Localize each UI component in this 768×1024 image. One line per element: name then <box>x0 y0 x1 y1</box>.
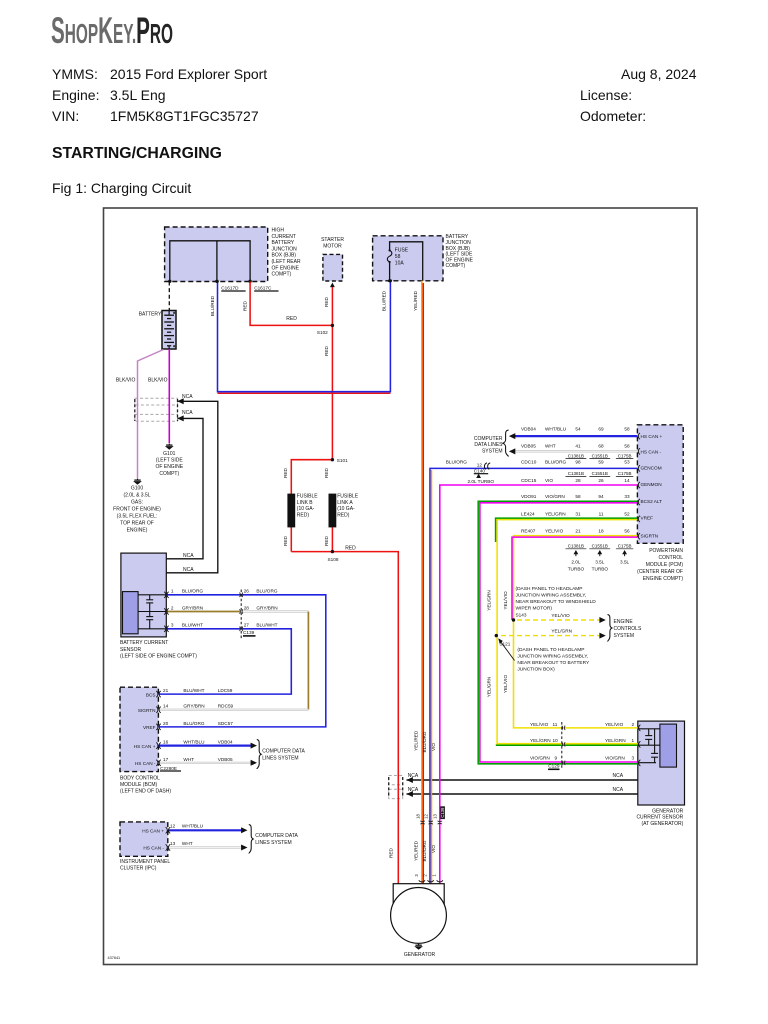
svg-text:BLU/ORG: BLU/ORG <box>183 721 204 726</box>
svg-text:GRY/BRN: GRY/BRN <box>256 605 277 610</box>
svg-text:NCA: NCA <box>183 567 194 573</box>
svg-text:(CENTER REAR OF: (CENTER REAR OF <box>637 569 683 575</box>
svg-text:27: 27 <box>244 623 250 628</box>
svg-text:1: 1 <box>171 589 174 594</box>
svg-text:BLU/WHT: BLU/WHT <box>182 623 203 628</box>
svg-text:1: 1 <box>632 738 635 743</box>
svg-text:2.0L TURBO: 2.0L TURBO <box>468 479 495 484</box>
svg-text:BLU/WHT: BLU/WHT <box>256 623 277 628</box>
svg-text:10A: 10A <box>395 260 405 266</box>
svg-text:(AT GENERATOR): (AT GENERATOR) <box>641 821 683 827</box>
svg-text:JUNCTION WIRING ASSEMBLY,: JUNCTION WIRING ASSEMBLY, <box>517 653 588 659</box>
svg-text:9: 9 <box>555 755 558 760</box>
svg-text:COMPUTER DATA: COMPUTER DATA <box>255 833 298 839</box>
svg-text:16: 16 <box>163 740 169 745</box>
svg-text:2: 2 <box>171 605 174 610</box>
svg-text:OF ENGINE: OF ENGINE <box>156 464 184 470</box>
svg-text:YEL/VIO: YEL/VIO <box>503 675 508 694</box>
svg-text:NCA: NCA <box>182 394 193 400</box>
svg-text:COMPT): COMPT) <box>159 471 179 477</box>
svg-text:BLU/ORG: BLU/ORG <box>422 731 427 752</box>
svg-text:C1381B: C1381B <box>568 544 584 549</box>
svg-text:YEL/RED: YEL/RED <box>414 840 419 861</box>
svg-text:C2280E: C2280E <box>160 766 177 771</box>
svg-text:Fig 1: Charging Circuit: Fig 1: Charging Circuit <box>52 180 191 196</box>
svg-text:LDC59: LDC59 <box>218 688 233 693</box>
svg-text:GENERATOR: GENERATOR <box>404 952 436 958</box>
svg-text:GAS:: GAS: <box>131 500 143 506</box>
svg-text:HS CAN +: HS CAN + <box>134 744 156 749</box>
svg-text:WIPER MOTOR): WIPER MOTOR) <box>516 605 553 611</box>
svg-text:58: 58 <box>624 443 630 448</box>
svg-text:YEL/RED: YEL/RED <box>413 290 418 311</box>
svg-text:TOP REAR OF: TOP REAR OF <box>120 521 154 527</box>
svg-text:C1551B: C1551B <box>592 471 608 476</box>
svg-text:HS CAN +: HS CAN + <box>142 828 164 833</box>
svg-text:BLU/ORG: BLU/ORG <box>422 840 427 861</box>
svg-text:YEL/GRN: YEL/GRN <box>487 590 492 611</box>
svg-text:WHT/BLU: WHT/BLU <box>182 824 204 829</box>
svg-text:HS CAN -: HS CAN - <box>135 761 156 766</box>
svg-text:STARTER: STARTER <box>321 237 344 243</box>
svg-text:C1617D: C1617D <box>221 286 239 291</box>
svg-text:14: 14 <box>163 704 169 709</box>
svg-text:BLU/RED: BLU/RED <box>210 295 215 316</box>
svg-text:License:: License: <box>580 87 632 103</box>
svg-text:CONTROL: CONTROL <box>659 555 684 561</box>
svg-text:CURRENT: CURRENT <box>272 234 296 240</box>
svg-text:C175B: C175B <box>618 544 632 549</box>
svg-text:GENCOM: GENCOM <box>641 465 662 470</box>
svg-text:TURBO: TURBO <box>568 566 585 571</box>
svg-text:C139: C139 <box>243 630 255 635</box>
svg-text:VIO/GRN: VIO/GRN <box>605 755 625 760</box>
svg-text:YEL/GRN: YEL/GRN <box>545 512 566 517</box>
svg-text:YEL/VIO: YEL/VIO <box>503 591 508 610</box>
svg-text:YEL/VIO: YEL/VIO <box>545 529 564 534</box>
svg-text:MOTOR: MOTOR <box>323 244 342 250</box>
svg-text:C175B: C175B <box>618 453 632 458</box>
svg-text:C1551B: C1551B <box>592 453 608 458</box>
svg-text:COMPT): COMPT) <box>272 272 292 278</box>
svg-text:COMPUTER DATA: COMPUTER DATA <box>262 749 305 755</box>
svg-text:(10 GA-: (10 GA- <box>337 506 355 512</box>
svg-text:YMMS:: YMMS: <box>52 66 98 82</box>
svg-text:RED: RED <box>345 546 356 552</box>
svg-text:OF ENGINE: OF ENGINE <box>272 265 300 271</box>
svg-text:41: 41 <box>575 443 581 448</box>
svg-text:(10 GA-: (10 GA- <box>297 506 315 512</box>
svg-text:2: 2 <box>632 722 635 727</box>
svg-text:SIGRTN: SIGRTN <box>641 533 659 538</box>
svg-text:13: 13 <box>433 814 438 819</box>
svg-text:RED): RED) <box>297 512 310 518</box>
svg-text:INSTRUMENT PANEL: INSTRUMENT PANEL <box>120 859 170 865</box>
svg-text:437641: 437641 <box>108 956 121 960</box>
svg-text:SENSOR: SENSOR <box>120 647 142 653</box>
svg-text:33: 33 <box>624 494 630 499</box>
svg-text:BATTERY CURRENT: BATTERY CURRENT <box>120 640 168 646</box>
svg-text:C1381B: C1381B <box>568 453 584 458</box>
svg-text:58: 58 <box>395 254 401 260</box>
svg-text:S108: S108 <box>328 557 339 562</box>
svg-text:LE424: LE424 <box>521 512 535 517</box>
svg-text:YEL/VIO: YEL/VIO <box>530 722 549 727</box>
svg-text:(LEFT END OF DASH): (LEFT END OF DASH) <box>120 789 171 795</box>
svg-text:WHT: WHT <box>545 443 556 448</box>
svg-text:(DASH PANEL TO HEADLAMP: (DASH PANEL TO HEADLAMP <box>517 647 584 653</box>
svg-text:FUSIBLE: FUSIBLE <box>297 494 319 500</box>
svg-text:TURBO: TURBO <box>592 566 609 571</box>
svg-text:ENGINE: ENGINE <box>614 619 634 625</box>
svg-text:C175B: C175B <box>618 471 632 476</box>
svg-text:BATTERY: BATTERY <box>272 240 295 246</box>
svg-text:12: 12 <box>170 824 176 829</box>
svg-text:Odometer:: Odometer: <box>580 108 646 124</box>
svg-text:WHT: WHT <box>183 757 194 762</box>
svg-text:(LEFT SIDE OF ENGINE COMPT): (LEFT SIDE OF ENGINE COMPT) <box>120 654 197 660</box>
svg-text:ENGINE COMPT): ENGINE COMPT) <box>643 576 684 582</box>
svg-text:CURRENT SENSOR: CURRENT SENSOR <box>636 815 683 821</box>
svg-text:CDC15: CDC15 <box>521 478 537 483</box>
svg-text:Aug 8, 2024: Aug 8, 2024 <box>621 66 697 82</box>
svg-text:BATTERY: BATTERY <box>139 312 162 318</box>
svg-text:G100: G100 <box>131 486 143 492</box>
svg-text:YEL/VIO: YEL/VIO <box>605 722 624 727</box>
svg-text:VDB05: VDB05 <box>218 757 233 762</box>
svg-text:WHT/BLU: WHT/BLU <box>183 740 205 745</box>
svg-text:BODY CONTROL: BODY CONTROL <box>120 775 160 781</box>
svg-text:RED: RED <box>324 535 329 546</box>
svg-text:BLU/RED: BLU/RED <box>382 290 387 311</box>
svg-text:3: 3 <box>171 623 174 628</box>
svg-text:RED: RED <box>324 296 329 307</box>
svg-text:NCA: NCA <box>408 787 419 793</box>
svg-text:NEAR BREAKOUT TO WINDSHIELD: NEAR BREAKOUT TO WINDSHIELD <box>516 599 597 605</box>
svg-text:28: 28 <box>244 605 250 610</box>
svg-text:WHT/BLU: WHT/BLU <box>545 427 567 432</box>
svg-text:C1617C: C1617C <box>254 286 272 291</box>
svg-text:GRY/BRN: GRY/BRN <box>183 704 204 709</box>
svg-text:C129: C129 <box>548 764 560 769</box>
svg-text:ENGINE): ENGINE) <box>127 528 148 534</box>
svg-text:NCA: NCA <box>183 553 194 559</box>
svg-text:RED: RED <box>283 467 288 478</box>
svg-text:11: 11 <box>599 512 604 517</box>
svg-text:58: 58 <box>624 427 630 432</box>
svg-text:COMPT): COMPT) <box>446 263 466 269</box>
svg-text:17: 17 <box>163 757 169 762</box>
svg-text:CLUSTER (IPC): CLUSTER (IPC) <box>120 865 157 871</box>
svg-text:RDC59: RDC59 <box>218 704 234 709</box>
svg-text:21: 21 <box>575 529 581 534</box>
svg-text:VIO: VIO <box>431 845 436 853</box>
svg-text:S121: S121 <box>499 642 510 647</box>
svg-text:1FM5K8GT1FGC35727: 1FM5K8GT1FGC35727 <box>110 108 259 124</box>
svg-text:BLU/ORG: BLU/ORG <box>545 459 566 464</box>
svg-text:MODULE (BCM): MODULE (BCM) <box>120 782 158 788</box>
svg-text:94: 94 <box>598 494 604 499</box>
svg-text:VREF: VREF <box>641 516 654 521</box>
svg-text:3.5L: 3.5L <box>595 560 605 565</box>
svg-text:HS CAN -: HS CAN - <box>143 846 164 851</box>
svg-text:SDC57: SDC57 <box>218 721 234 726</box>
svg-text:52: 52 <box>624 512 630 517</box>
svg-text:S143: S143 <box>516 613 527 618</box>
svg-text:DATA LINES: DATA LINES <box>474 442 503 448</box>
svg-text:JUNCTION WIRING ASSEMBLY,: JUNCTION WIRING ASSEMBLY, <box>516 592 587 598</box>
svg-text:GRY/BRN: GRY/BRN <box>182 605 203 610</box>
svg-text:2015 Ford Explorer Sport: 2015 Ford Explorer Sport <box>110 66 267 82</box>
svg-text:MODULE (PCM): MODULE (PCM) <box>646 562 684 568</box>
svg-text:BLU/ORG: BLU/ORG <box>446 460 467 465</box>
svg-text:(DASH PANEL TO HEADLAMP: (DASH PANEL TO HEADLAMP <box>516 586 583 592</box>
svg-text:LINES SYSTEM: LINES SYSTEM <box>255 840 291 846</box>
svg-text:JUNCTION BOX): JUNCTION BOX) <box>517 666 555 672</box>
svg-text:3: 3 <box>414 874 419 877</box>
svg-text:20: 20 <box>163 721 169 726</box>
svg-text:NEAR BREAKOUT TO BATTERY: NEAR BREAKOUT TO BATTERY <box>517 660 590 666</box>
svg-text:VIN:: VIN: <box>52 108 79 124</box>
svg-text:NCA: NCA <box>182 410 193 416</box>
svg-text:3: 3 <box>632 755 635 760</box>
svg-text:CDC10: CDC10 <box>521 459 537 464</box>
svg-text:56: 56 <box>624 529 630 534</box>
svg-text:VREF: VREF <box>143 725 156 730</box>
svg-text:YEL/RED: YEL/RED <box>414 730 419 751</box>
svg-text:59: 59 <box>598 459 604 464</box>
svg-text:RED: RED <box>324 467 329 478</box>
svg-text:SYSTEM: SYSTEM <box>614 633 635 639</box>
svg-text:C139: C139 <box>440 807 445 818</box>
svg-text:10: 10 <box>553 738 559 743</box>
svg-text:VDO91: VDO91 <box>521 494 537 499</box>
svg-text:JUNCTION: JUNCTION <box>272 246 298 252</box>
svg-text:21: 21 <box>163 688 169 693</box>
svg-text:NCA: NCA <box>613 787 624 793</box>
svg-text:CONTROLS: CONTROLS <box>614 626 642 632</box>
svg-text:STARTING/CHARGING: STARTING/CHARGING <box>52 145 222 162</box>
svg-text:69: 69 <box>598 427 604 432</box>
svg-text:NCA: NCA <box>613 773 624 779</box>
svg-text:28: 28 <box>575 478 581 483</box>
svg-text:54: 54 <box>575 427 581 432</box>
svg-text:YEL/GRN: YEL/GRN <box>530 738 551 743</box>
svg-text:HS CAN -: HS CAN - <box>641 450 662 455</box>
svg-text:HIGH: HIGH <box>272 228 285 234</box>
svg-text:RED: RED <box>283 535 288 546</box>
svg-text:LINK B: LINK B <box>297 500 314 506</box>
svg-text:53: 53 <box>624 459 630 464</box>
svg-text:VDB04: VDB04 <box>521 427 536 432</box>
svg-text:RED: RED <box>286 316 297 322</box>
svg-text:VIO: VIO <box>431 743 436 751</box>
svg-text:BLK/VIO: BLK/VIO <box>116 378 136 384</box>
svg-text:SHOPKEY.PRO: SHOPKEY.PRO <box>51 11 173 52</box>
svg-text:12: 12 <box>424 814 429 819</box>
svg-text:G101: G101 <box>163 451 175 457</box>
svg-text:31: 31 <box>575 512 581 517</box>
svg-text:Engine:: Engine: <box>52 87 99 103</box>
svg-text:SIGRTN: SIGRTN <box>138 708 156 713</box>
svg-text:YEL/VIO: YEL/VIO <box>551 613 570 618</box>
svg-text:BLU/WHT: BLU/WHT <box>183 688 204 693</box>
svg-text:VIO/GRN: VIO/GRN <box>530 755 550 760</box>
svg-text:C1381B: C1381B <box>568 471 584 476</box>
svg-text:18: 18 <box>415 814 420 819</box>
svg-text:VDB04: VDB04 <box>218 740 233 745</box>
svg-text:11: 11 <box>553 722 558 727</box>
svg-text:BOX (BJB): BOX (BJB) <box>272 253 297 259</box>
svg-text:WHT: WHT <box>182 841 193 846</box>
svg-text:FRONT OF ENGINE): FRONT OF ENGINE) <box>113 507 161 513</box>
svg-text:98: 98 <box>575 459 581 464</box>
svg-text:RE407: RE407 <box>521 529 536 534</box>
svg-text:YEL/GRN: YEL/GRN <box>487 677 492 698</box>
svg-text:RED: RED <box>242 300 247 311</box>
svg-text:(2.0L & 3.5L: (2.0L & 3.5L <box>123 493 150 499</box>
svg-text:VIO/GRN: VIO/GRN <box>545 494 565 499</box>
svg-text:S102: S102 <box>317 330 328 335</box>
svg-text:SYSTEM: SYSTEM <box>482 448 503 454</box>
svg-text:26: 26 <box>244 589 250 594</box>
svg-text:3.5L: 3.5L <box>620 560 630 565</box>
svg-text:13: 13 <box>170 841 176 846</box>
svg-text:58: 58 <box>575 494 581 499</box>
svg-text:14: 14 <box>624 478 630 483</box>
svg-text:(LEFT REAR: (LEFT REAR <box>272 259 301 265</box>
svg-text:GENMON: GENMON <box>641 482 662 487</box>
svg-text:S101: S101 <box>337 458 348 463</box>
svg-text:BLK/VIO: BLK/VIO <box>148 378 168 384</box>
svg-text:POWERTRAIN: POWERTRAIN <box>649 548 683 554</box>
svg-text:18: 18 <box>598 529 604 534</box>
svg-text:YEL/GRN: YEL/GRN <box>605 738 626 743</box>
svg-text:GENERATOR: GENERATOR <box>652 808 684 814</box>
svg-text:C1551B: C1551B <box>592 544 608 549</box>
svg-text:BLU/ORG: BLU/ORG <box>256 589 277 594</box>
svg-text:2.0L: 2.0L <box>571 560 581 565</box>
svg-text:RED: RED <box>389 847 394 858</box>
svg-text:LINK A: LINK A <box>337 500 353 506</box>
svg-text:VDB05: VDB05 <box>521 443 536 448</box>
svg-text:68: 68 <box>598 443 604 448</box>
svg-text:FUSIBLE: FUSIBLE <box>337 494 359 500</box>
svg-text:BCS: BCS <box>146 692 156 697</box>
svg-text:3.5L Eng: 3.5L Eng <box>110 87 166 103</box>
svg-text:FUSE: FUSE <box>395 248 409 254</box>
svg-text:HS CAN +: HS CAN + <box>641 434 663 439</box>
svg-text:RED: RED <box>324 345 329 356</box>
svg-text:C140: C140 <box>474 469 486 474</box>
svg-text:LINES SYSTEM: LINES SYSTEM <box>262 756 298 762</box>
svg-text:(LEFT SIDE: (LEFT SIDE <box>156 458 184 464</box>
svg-text:YEL/GRN: YEL/GRN <box>551 628 572 633</box>
svg-text:12: 12 <box>477 462 483 467</box>
svg-text:(3.5L FLEX FUEL:: (3.5L FLEX FUEL: <box>117 514 158 520</box>
svg-text:26: 26 <box>598 478 604 483</box>
svg-text:NCA: NCA <box>408 773 419 779</box>
svg-text:BLU/ORG: BLU/ORG <box>182 589 203 594</box>
svg-text:RED): RED) <box>337 512 350 518</box>
svg-text:BCS2 ALT: BCS2 ALT <box>641 499 663 504</box>
svg-text:VIO: VIO <box>545 478 553 483</box>
